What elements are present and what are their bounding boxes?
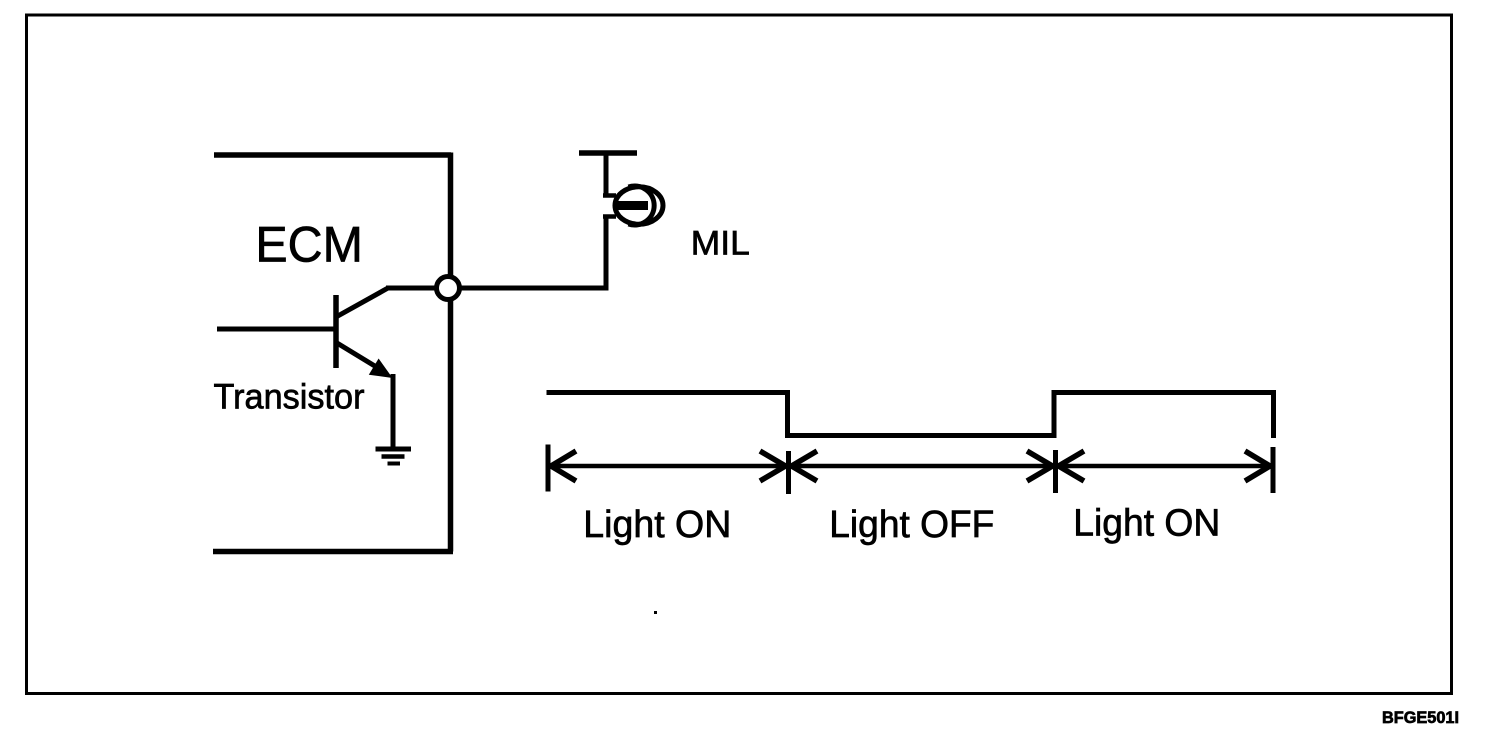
svg-text:Light ON: Light ON [1073, 503, 1220, 545]
power feed bar [579, 150, 637, 156]
arrowhead right at tick 2 [760, 451, 786, 481]
ECM box right wire [448, 153, 454, 552]
svg-text:ECM: ECM [255, 217, 363, 273]
wire node to MIL branch [448, 286, 609, 291]
arrowhead left at tick 1 [551, 451, 576, 481]
arrowhead left at tick 2 [792, 451, 818, 481]
transistor Q1 emitter diagonal [337, 343, 383, 371]
ground bar 2 [382, 454, 405, 459]
transistor Q1 collector diagonal [336, 288, 388, 317]
wire MIL branch vertical lower [604, 216, 609, 291]
lamp MIL filament bar [613, 201, 648, 210]
ground bar 3 [388, 462, 401, 466]
wire collector to node [386, 286, 448, 291]
arrowhead right at tick 3 [1027, 451, 1053, 481]
arrowhead left at tick 3 [1059, 451, 1085, 481]
arrowhead right at tick 4 [1245, 451, 1270, 481]
ECM box bottom wire [213, 549, 453, 555]
svg-text:MIL: MIL [691, 225, 750, 263]
ground bar 1 [376, 447, 412, 452]
wire emitter to ground [391, 374, 396, 449]
transistor Q1 base bar [333, 295, 339, 368]
tick 3 [1053, 450, 1058, 493]
transistor Q1 emitter arrowhead [369, 359, 393, 379]
lamp MIL lower terminal stub [603, 214, 616, 219]
svg-text:Light ON: Light ON [583, 504, 731, 546]
lamp MIL filament arc [629, 186, 655, 225]
svg-text:BFGE501I: BFGE501I [1382, 709, 1459, 727]
node junction circle [437, 277, 460, 300]
lamp MIL upper terminal stub [603, 193, 616, 198]
tick 2 [786, 451, 791, 494]
wire (scan speck) [654, 611, 657, 614]
svg-text:Transistor: Transistor [214, 378, 365, 417]
tick 4 [1271, 447, 1276, 493]
lamp MIL bulb envelope [615, 187, 663, 224]
wire MIL branch vertical upper [604, 151, 609, 197]
waveform trace [547, 393, 1274, 439]
tick 1 [546, 445, 551, 492]
ECM box top wire [214, 152, 451, 158]
transistor Q1 base wire [217, 327, 336, 332]
svg-text:Light OFF: Light OFF [829, 504, 994, 546]
dimension line [548, 464, 1273, 469]
